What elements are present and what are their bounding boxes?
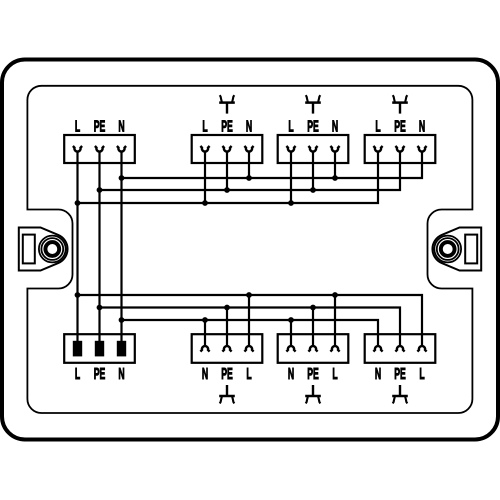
wire PE feed vertical: [98, 151, 100, 341]
svg-text:L: L: [75, 117, 80, 136]
wire top L bus: [78, 151, 379, 204]
terminal block T3 (L PE N): [278, 117, 349, 163]
wire L feed vertical: [76, 151, 78, 341]
wire T2 L drop: [204, 151, 206, 203]
pin L: [73, 341, 82, 357]
junction B2 N: [202, 317, 208, 323]
junction T2 PE: [224, 187, 230, 193]
enclosure inner frame with lug notches: [27, 86, 472, 413]
svg-text:N: N: [288, 364, 294, 383]
wire T3 L drop: [290, 151, 292, 203]
svg-text:PE: PE: [307, 117, 319, 136]
outgoing circuit symbol below B4: [392, 385, 408, 403]
svg-text:L: L: [75, 364, 80, 383]
junction T3 PE: [310, 187, 316, 193]
enclosure outer frame: [2, 60, 498, 440]
svg-text:N: N: [332, 117, 338, 136]
svg-text:PE: PE: [394, 364, 406, 383]
wire B3 PE riser: [312, 308, 314, 347]
svg-text:N: N: [202, 364, 208, 383]
svg-text:PE: PE: [94, 117, 106, 136]
wire T3 N drop: [334, 151, 336, 178]
junction T2 L: [202, 200, 208, 206]
junction PE feed / bottom PE bus: [97, 305, 103, 311]
svg-text:PE: PE: [307, 364, 319, 383]
svg-text:L: L: [419, 364, 424, 383]
svg-text:PE: PE: [221, 364, 233, 383]
terminal block B4 (N PE L): [365, 334, 436, 383]
terminal block B1 supply input (L PE N pins): [64, 334, 135, 383]
terminal block B3 (N PE L): [278, 334, 349, 383]
svg-text:N: N: [246, 117, 252, 136]
wire T2 PE drop: [226, 151, 228, 190]
terminal block T1 (feed-through, L PE N): [64, 117, 135, 163]
outgoing circuit symbol below B2: [219, 385, 235, 403]
junction B3 L: [332, 292, 338, 298]
svg-text:PE: PE: [394, 117, 406, 136]
svg-text:L: L: [246, 364, 251, 383]
right mounting lug: [432, 228, 481, 271]
left mounting lug: [19, 228, 68, 271]
junction T2 N: [246, 175, 252, 181]
junction T3 L: [288, 200, 294, 206]
svg-text:PE: PE: [221, 117, 233, 136]
wire bottom PE bus: [100, 308, 401, 347]
terminal block B2 (N PE L): [192, 334, 263, 383]
svg-text:L: L: [288, 117, 293, 136]
svg-text:L: L: [332, 364, 337, 383]
junction B3 N: [288, 317, 294, 323]
outgoing circuit symbol below B3: [305, 385, 321, 403]
wire top PE bus: [100, 151, 401, 191]
svg-text:N: N: [118, 364, 124, 383]
wire B3 L riser: [334, 295, 336, 346]
junction T3 N: [332, 175, 338, 181]
outgoing circuit symbol above T2: [219, 95, 235, 113]
wire B2 L riser: [248, 295, 250, 346]
junction N feed / top N bus: [119, 175, 125, 181]
terminal block T2 (L PE N): [192, 117, 263, 163]
svg-text:N: N: [419, 117, 425, 136]
wire N feed vertical: [120, 151, 122, 341]
junction L feed / bottom L bus: [75, 292, 81, 298]
junction L feed / top L bus: [75, 200, 81, 206]
wire B2 N riser: [204, 320, 206, 346]
svg-text:L: L: [202, 117, 207, 136]
wire T3 PE drop: [312, 151, 314, 190]
pin N: [117, 341, 126, 357]
wire T2 N drop: [248, 151, 250, 178]
pin PE: [95, 341, 104, 357]
wire top N bus: [122, 151, 423, 179]
wire B2 PE riser: [226, 308, 228, 347]
junction N feed / bottom N bus: [119, 317, 125, 323]
wire B3 N riser: [290, 320, 292, 346]
junction B2 PE: [224, 305, 230, 311]
svg-text:PE: PE: [94, 364, 106, 383]
terminal block T4 (L PE N): [365, 117, 436, 163]
svg-text:L: L: [375, 117, 380, 136]
junction B3 PE: [310, 305, 316, 311]
svg-text:N: N: [118, 117, 124, 136]
junction PE feed / top PE bus: [97, 187, 103, 193]
wire bottom L bus: [78, 295, 423, 346]
outgoing circuit symbol above T3: [305, 95, 321, 113]
svg-text:N: N: [375, 364, 381, 383]
outgoing circuit symbol above T4: [392, 95, 408, 113]
junction B2 L: [246, 292, 252, 298]
wire bottom N bus: [122, 320, 379, 346]
